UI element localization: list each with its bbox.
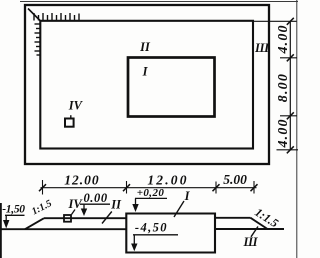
scan border top	[20, 1, 298, 3]
svg-text:II: II	[110, 198, 122, 212]
svg-text:II: II	[139, 40, 151, 54]
svg-text:-4,50: -4,50	[135, 220, 168, 234]
plan inner pit-bottom contour	[40, 21, 253, 149]
scan border left strip	[0, 203, 2, 258]
section berm line right	[215, 217, 251, 219]
slope hatch ticks top edge	[34, 13, 79, 21]
section left slope	[25, 218, 44, 229]
svg-text:0.00: 0.00	[83, 191, 107, 205]
slope hatch ticks left edge	[35, 24, 40, 55]
section pit rectangle	[126, 214, 215, 253]
extension line y149.8	[277, 149, 299, 151]
benchmark square IV section	[64, 215, 71, 222]
right dimension line	[289, 21, 291, 150]
section right slope	[251, 218, 268, 229]
dim slashes right	[287, 18, 294, 154]
section berm line left	[44, 217, 126, 219]
benchmark square IV plan	[65, 119, 74, 127]
svg-text:5.00: 5.00	[223, 172, 247, 187]
extension verticals bottom	[43, 180, 255, 195]
svg-text:+0,20: +0,20	[137, 187, 165, 199]
svg-text:I: I	[184, 189, 191, 203]
svg-text:Ш: Ш	[254, 41, 270, 55]
svg-text:4.00: 4.00	[276, 24, 291, 54]
leader II section	[102, 212, 112, 224]
svg-text:I: I	[142, 64, 149, 78]
building I footprint	[128, 58, 215, 117]
section lower ground line right	[215, 228, 284, 230]
svg-text:-1,50: -1,50	[2, 204, 25, 216]
extension line y115.8	[280, 115, 297, 117]
extension line y21	[254, 20, 297, 22]
leader I section	[174, 201, 184, 217]
plan outer excavation contour	[25, 5, 269, 164]
bottom dimension line	[41, 187, 257, 189]
svg-text:12.00: 12.00	[147, 173, 188, 188]
leader III section	[251, 227, 258, 237]
svg-text:1:1.5: 1:1.5	[252, 205, 281, 230]
svg-text:4.00: 4.00	[276, 118, 291, 148]
svg-text:Ш: Ш	[242, 235, 258, 249]
svg-text:IV: IV	[68, 99, 84, 113]
svg-text:8.00: 8.00	[276, 73, 291, 102]
section lower ground line left	[0, 228, 126, 230]
svg-text:12.00: 12.00	[64, 173, 99, 188]
scan border right	[296, 0, 298, 258]
slope corner diagonal	[28, 9, 41, 22]
svg-text:1:1.5: 1:1.5	[30, 198, 54, 217]
extension line y57.8	[280, 57, 297, 59]
dim slashes bottom	[39, 184, 258, 191]
